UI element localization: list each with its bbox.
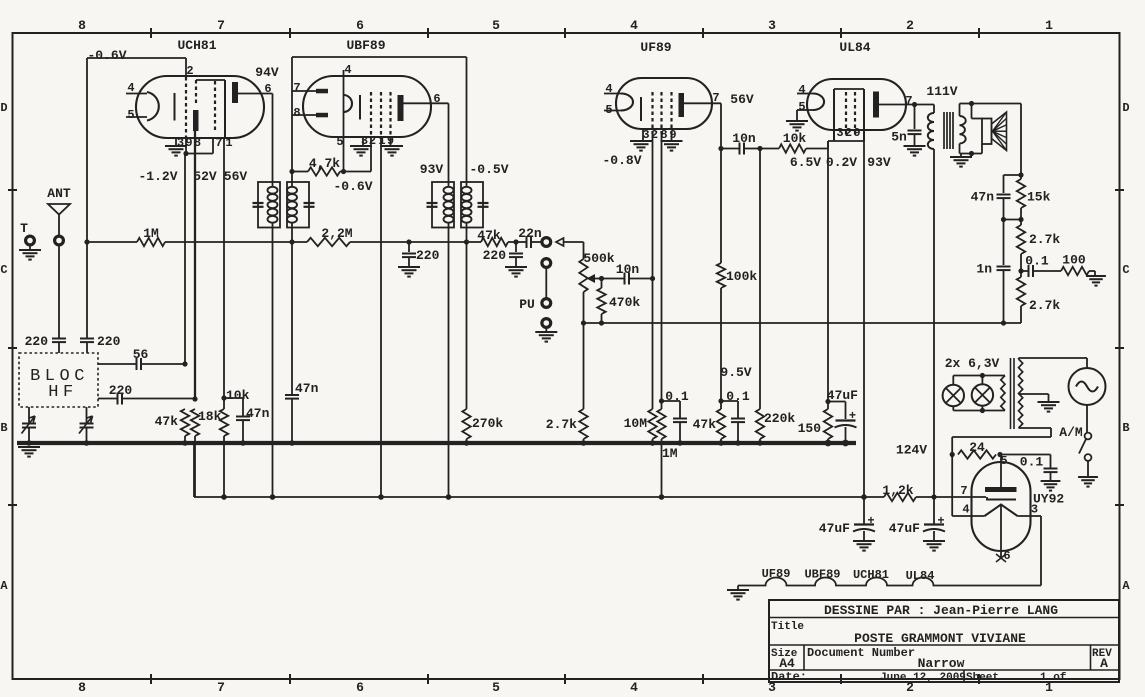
- wire anode drop to IF1: [272, 94, 274, 183]
- heater chain line: [738, 578, 1041, 586]
- svg-text:4: 4: [798, 83, 805, 97]
- svg-text:UF89: UF89: [762, 567, 791, 581]
- block BLOC HF: [19, 353, 98, 407]
- svg-text:8: 8: [78, 18, 86, 33]
- IF transformer T2 secondary: [461, 182, 483, 228]
- chassis bus: [17, 441, 856, 445]
- svg-text:220k: 220k: [764, 411, 795, 426]
- wire speaker top feedback: [972, 103, 1022, 105]
- svg-text:3: 3: [836, 126, 843, 140]
- svg-text:10n: 10n: [616, 262, 640, 277]
- UL84 anode: [873, 92, 879, 118]
- svg-text:6.5V: 6.5V: [790, 155, 821, 170]
- svg-text:470k: 470k: [609, 295, 640, 310]
- UF89 grid bar: [640, 97, 642, 121]
- ground bus symbol: [18, 446, 40, 448]
- UL84 grid box: [834, 88, 864, 90]
- wire UF89 anode down: [720, 103, 722, 148]
- ground PU: [535, 331, 557, 333]
- svg-text:5: 5: [492, 18, 500, 33]
- PU jack pin 1: [542, 238, 551, 247]
- UF89 cathode arc: [621, 94, 633, 111]
- svg-text:56V: 56V: [730, 92, 754, 107]
- UF89 grid pin2 dashed: [651, 92, 653, 134]
- UL84 cathode arc: [813, 94, 824, 111]
- IF transformer T2 primary: [432, 182, 454, 228]
- wire UL84 cathode down to 150: [827, 141, 829, 402]
- svg-text:+: +: [937, 514, 944, 528]
- capacitor 220 (AVC): [406, 239, 411, 244]
- wire T1 secondary bottom to AVC: [291, 228, 293, 243]
- wire speaker bottom: [981, 144, 983, 154]
- wire cathode line down (thick): [194, 131, 196, 399]
- svg-text:D: D: [1122, 101, 1129, 115]
- mains transformer core: [1010, 358, 1012, 429]
- UCH81 anode: [232, 82, 238, 103]
- svg-text:2: 2: [651, 128, 658, 142]
- svg-text:4: 4: [630, 18, 638, 33]
- svg-text:220: 220: [25, 334, 49, 349]
- svg-text:7: 7: [215, 136, 222, 150]
- svg-text:A: A: [1122, 579, 1130, 593]
- svg-text:A: A: [1100, 656, 1108, 671]
- svg-text:7: 7: [217, 18, 225, 33]
- UL84 grids dashed: [845, 92, 847, 137]
- svg-text:10M: 10M: [624, 416, 648, 431]
- svg-text:B: B: [0, 421, 7, 435]
- PU jack pin 4: [542, 319, 551, 328]
- wire 124V from output transformer: [933, 149, 935, 497]
- wire AC to switch: [1086, 405, 1088, 433]
- variable capacitor tuning B: [86, 407, 88, 423]
- UCH81 cathode arc: [147, 92, 159, 121]
- wire T1 primary bottom to B+ rail: [272, 228, 274, 498]
- svg-text:220: 220: [483, 248, 507, 263]
- svg-text:6: 6: [356, 18, 364, 33]
- svg-text:8: 8: [78, 680, 86, 695]
- svg-text:2: 2: [845, 126, 852, 140]
- UBF89 grid pin 9 dashed: [389, 92, 391, 137]
- svg-text:UCH81: UCH81: [177, 38, 216, 53]
- heater chain ground: [737, 586, 739, 590]
- svg-text:A/M: A/M: [1059, 425, 1083, 440]
- svg-text:47n: 47n: [246, 406, 270, 421]
- svg-text:7: 7: [217, 680, 225, 695]
- svg-text:0.2V: 0.2V: [826, 155, 857, 170]
- svg-text:5n: 5n: [891, 130, 907, 145]
- UF89 pin9 dashed: [670, 92, 672, 134]
- wire T2 primary bottom to B+ rail: [448, 228, 450, 498]
- ground speaker: [960, 154, 962, 157]
- svg-text:2.7k: 2.7k: [546, 417, 577, 432]
- ground UF89 pin3: [642, 129, 644, 140]
- PU jack link: [545, 268, 547, 299]
- output transformer primary: [915, 104, 935, 106]
- svg-text:4: 4: [630, 680, 638, 695]
- variable capacitor tuning A: [28, 407, 30, 423]
- wire T1 secondary top: [291, 57, 293, 182]
- svg-text:1: 1: [225, 136, 232, 150]
- svg-text:UL84: UL84: [839, 40, 870, 55]
- svg-text:5: 5: [798, 100, 805, 114]
- svg-text:111V: 111V: [926, 84, 957, 99]
- capacitor 220 (detector): [515, 242, 517, 252]
- svg-text:47n: 47n: [971, 190, 995, 205]
- ground UBF89 pin3: [362, 137, 364, 145]
- svg-text:5: 5: [336, 135, 343, 149]
- svg-text:93V: 93V: [420, 162, 444, 177]
- mains transformer heater winding: [1001, 376, 1005, 411]
- svg-text:2x 6,3V: 2x 6,3V: [945, 356, 1000, 371]
- UY92 heater: [985, 505, 1018, 517]
- svg-text:10k: 10k: [783, 131, 807, 146]
- svg-text:Sheet: Sheet: [966, 672, 999, 684]
- svg-text:1 of: 1 of: [1040, 672, 1067, 684]
- svg-text:5: 5: [492, 680, 500, 695]
- transformer core: [943, 112, 945, 149]
- UCH81 pin 1 line: [224, 80, 226, 138]
- svg-text:47uF: 47uF: [889, 521, 920, 536]
- B+ rail: [193, 443, 195, 497]
- svg-text:UBF89: UBF89: [804, 568, 840, 582]
- wire grid1 line down to 56 junction: [184, 154, 186, 365]
- svg-text:8: 8: [660, 128, 667, 142]
- svg-text:4,7k: 4,7k: [309, 156, 340, 171]
- UBF89 grid g1 bar: [359, 95, 361, 120]
- capacitor 10n: [718, 146, 723, 151]
- UCH81 grid dashed: [214, 81, 216, 133]
- svg-text:150: 150: [798, 421, 822, 436]
- junction pin9-pin7: [183, 151, 188, 156]
- svg-text:UF89: UF89: [640, 40, 671, 55]
- svg-text:-0.6V: -0.6V: [87, 48, 126, 63]
- arrow into pot: [556, 238, 564, 246]
- svg-text:T: T: [20, 221, 28, 236]
- svg-text:A: A: [0, 579, 8, 593]
- svg-text:DESSINE PAR : Jean-Pierre LANG: DESSINE PAR : Jean-Pierre LANG: [824, 603, 1058, 618]
- UCH81 cathode bar: [193, 110, 199, 131]
- svg-text:Narrow: Narrow: [918, 656, 965, 671]
- svg-text:52V: 52V: [193, 169, 217, 184]
- svg-text:Title: Title: [771, 621, 804, 633]
- svg-text:7: 7: [905, 94, 912, 108]
- PU jack pin 2: [542, 259, 551, 268]
- wire rectifier cathode: [934, 496, 986, 498]
- svg-text:3: 3: [768, 18, 776, 33]
- svg-text:2: 2: [906, 18, 914, 33]
- ground UCH81 pin3: [175, 138, 177, 145]
- svg-text:8: 8: [293, 106, 300, 120]
- svg-text:June 12, 2009: June 12, 2009: [880, 672, 966, 684]
- UBF89 grid pin 2 dashed: [370, 92, 372, 137]
- svg-text:POSTE GRAMMONT VIVIANE: POSTE GRAMMONT VIVIANE: [854, 631, 1026, 646]
- svg-text:5: 5: [127, 108, 134, 122]
- ground UBF89 pin9: [390, 137, 392, 145]
- svg-text:124V: 124V: [896, 443, 927, 458]
- svg-text:9: 9: [853, 126, 860, 140]
- svg-text:7: 7: [960, 484, 967, 498]
- mains tap ground: [1019, 393, 1049, 395]
- svg-text:47n: 47n: [295, 381, 319, 396]
- UY92 anode: [985, 487, 1017, 492]
- svg-text:47k: 47k: [155, 414, 179, 429]
- UCH81 grid g1: [174, 93, 176, 121]
- svg-text:C: C: [1122, 263, 1129, 277]
- wire UBF89 anode to IF2: [448, 103, 450, 182]
- svg-text:4: 4: [344, 63, 351, 77]
- svg-text:-0.5V: -0.5V: [469, 162, 508, 177]
- wire feedback drop: [1020, 104, 1022, 176]
- svg-text:D: D: [0, 101, 7, 115]
- svg-text:2.7k: 2.7k: [1029, 232, 1060, 247]
- svg-text:220: 220: [97, 334, 121, 349]
- svg-text:3: 3: [177, 136, 184, 150]
- svg-text:UL84: UL84: [906, 569, 935, 583]
- svg-text:C: C: [0, 263, 7, 277]
- IF transformer T1 secondary: [287, 182, 309, 228]
- svg-text:94V: 94V: [255, 65, 279, 80]
- svg-text:0.1: 0.1: [1020, 455, 1044, 470]
- svg-text:3: 3: [1031, 503, 1038, 517]
- svg-text:-1.2V: -1.2V: [138, 169, 177, 184]
- UF89 pin8 dashed: [660, 92, 662, 134]
- svg-text:15k: 15k: [1027, 190, 1051, 205]
- output transformer secondary: [960, 116, 966, 144]
- IF transformer T1 primary: [258, 182, 280, 228]
- wire UL84 pin9 down to B+ rail: [863, 141, 865, 497]
- svg-text:A4: A4: [779, 656, 795, 671]
- svg-text:PU: PU: [519, 297, 535, 312]
- UBF89 grid pin 1 dashed / screen down: [380, 92, 382, 137]
- UCH81 screen box: [196, 79, 225, 81]
- mains transformer primary: [1019, 359, 1023, 428]
- wire feedback rail: [584, 322, 1022, 324]
- UBF89 anode: [398, 95, 404, 121]
- svg-text:9: 9: [669, 128, 676, 142]
- svg-text:47k: 47k: [693, 417, 717, 432]
- junction 4.7k: [289, 169, 294, 174]
- wire T2 secondary top to diode: [466, 57, 468, 182]
- svg-text:100: 100: [1062, 253, 1086, 268]
- svg-text:100k: 100k: [726, 269, 757, 284]
- svg-text:220: 220: [416, 248, 440, 263]
- svg-text:7: 7: [293, 81, 300, 95]
- svg-text:Date:: Date:: [771, 670, 807, 684]
- wire HT secondary: [1019, 427, 1052, 429]
- svg-text:HF: HF: [48, 383, 77, 402]
- svg-text:1M: 1M: [662, 446, 678, 461]
- PU jack pin 3: [542, 299, 551, 308]
- wire pin1 line down to 10k: [223, 138, 225, 398]
- svg-text:+: +: [867, 514, 874, 528]
- ground at T: [19, 249, 41, 251]
- svg-text:4: 4: [962, 503, 969, 517]
- svg-text:500k: 500k: [583, 251, 614, 266]
- svg-text:56V: 56V: [224, 169, 248, 184]
- UF89 anode: [679, 93, 685, 117]
- UY92 cathode: [986, 499, 1016, 501]
- svg-text:-0.6V: -0.6V: [333, 179, 372, 194]
- node AVC line: [84, 239, 89, 244]
- pot wiper arrow: [587, 274, 596, 283]
- wire T2 secondary bottom: [466, 228, 468, 243]
- svg-text:6: 6: [356, 680, 364, 695]
- svg-text:93V: 93V: [867, 155, 891, 170]
- svg-text:2: 2: [186, 64, 193, 78]
- svg-text:10k: 10k: [226, 388, 250, 403]
- svg-text:ANT: ANT: [47, 186, 71, 201]
- svg-text:UBF89: UBF89: [346, 38, 385, 53]
- svg-text:Document Number: Document Number: [807, 646, 915, 660]
- ground UF89 pin9: [661, 140, 683, 142]
- svg-text:220: 220: [109, 383, 133, 398]
- wire 220k feed: [759, 149, 761, 401]
- svg-text:-0.8V: -0.8V: [602, 153, 641, 168]
- svg-text:47uF: 47uF: [819, 521, 850, 536]
- UBF89 top rail: [292, 56, 467, 58]
- svg-text:1n: 1n: [976, 262, 992, 277]
- svg-text:270k: 270k: [472, 416, 503, 431]
- svg-text:2.7k: 2.7k: [1029, 298, 1060, 313]
- title block: [769, 600, 1119, 682]
- svg-text:9: 9: [185, 136, 192, 150]
- wire mains top: [1018, 358, 1020, 359]
- ground 100: [1086, 275, 1106, 277]
- loudspeaker: [971, 104, 973, 119]
- AC source: [1069, 368, 1106, 405]
- svg-text:9.5V: 9.5V: [720, 365, 751, 380]
- ground UL84 pin5: [786, 120, 808, 122]
- svg-text:1: 1: [1045, 18, 1053, 33]
- svg-text:B: B: [1122, 421, 1129, 435]
